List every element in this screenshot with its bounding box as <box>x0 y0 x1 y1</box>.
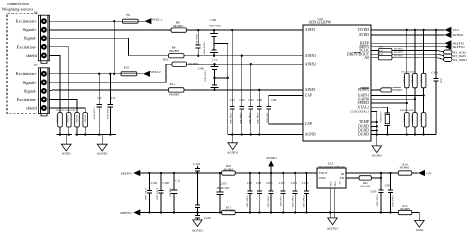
svg-text:TPS76950QDBVR1: TPS76950QDBVR1 <box>318 166 346 169</box>
wire XTAL1 TEMP DGND junction column <box>371 112 377 146</box>
node AINN2 x214 <box>213 63 215 65</box>
svg-text:Signal-: Signal- <box>24 36 38 41</box>
net tag RT_DAT1 <box>443 54 452 58</box>
node AINN1 x198 <box>197 55 199 57</box>
svg-text:AGND1: AGND1 <box>192 229 204 233</box>
capacitor C106 <box>147 173 152 213</box>
svg-text:C95: C95 <box>247 181 252 185</box>
svg-text:0R-0805: 0R-0805 <box>394 55 404 58</box>
capacitor C99b <box>257 173 262 213</box>
capacitor C97 lower <box>210 78 218 90</box>
svg-text:10k-0805: 10k-0805 <box>411 75 413 83</box>
svg-text:470pF-0603: 470pF-0603 <box>248 113 251 125</box>
svg-text:GND: GND <box>319 176 327 180</box>
resistor R14 <box>398 171 412 175</box>
svg-text:AGND1: AGND1 <box>327 227 339 231</box>
node rail R46 <box>422 133 424 135</box>
capacitor C100 <box>378 173 383 213</box>
svg-text:VCC: VCC <box>452 28 460 32</box>
node C4 junction <box>109 73 111 75</box>
svg-text:10uF/16V: 10uF/16V <box>169 188 172 198</box>
svg-text:NC: NC <box>338 182 340 186</box>
node C43 rail <box>250 133 252 135</box>
node SGND r2 <box>68 133 70 135</box>
svg-text:R44 R45 R46: R44 R45 R46 <box>400 109 415 112</box>
svg-text:VEXC2: VEXC2 <box>150 70 161 74</box>
node DVDD col2 <box>414 29 416 31</box>
node rail C3 <box>98 133 100 135</box>
capacitor C109 below line <box>195 213 200 220</box>
svg-text:470nF_0603: 470nF_0603 <box>156 188 159 201</box>
node C101 bottom <box>294 211 296 213</box>
svg-text:2.2uF-0603: 2.2uF-0603 <box>203 70 206 82</box>
resistor R31 <box>378 52 392 56</box>
svg-text:GND: GND <box>416 228 424 232</box>
svg-text:10k-0805: 10k-0805 <box>403 75 405 83</box>
svg-text:+5V: +5V <box>426 172 433 176</box>
resistor R45 pulldown <box>413 113 418 127</box>
wire Signal- sensor1 with jog <box>49 38 128 55</box>
ground DGND <box>372 146 381 153</box>
capacitor C101 <box>293 173 298 213</box>
connector P7 body <box>34 63 49 116</box>
node AINP1 x198 <box>197 29 199 31</box>
fuse F10 <box>121 72 137 76</box>
ground AGND1 left <box>97 135 107 151</box>
connector P6 pin 5 <box>41 52 47 58</box>
node rail R45 <box>414 133 416 135</box>
svg-text:C104: C104 <box>431 70 438 74</box>
svg-text:SREFN1: SREFN1 <box>120 211 132 215</box>
net flag +5V <box>418 170 425 176</box>
resistor R41 <box>359 176 371 180</box>
wire strap column3 <box>423 30 425 135</box>
node DGND b <box>376 129 378 131</box>
net flag VEXC1 <box>144 18 151 24</box>
resistor R17 <box>222 210 236 214</box>
node C99b bottom <box>258 211 260 213</box>
ground SGND <box>61 135 71 151</box>
svg-text:C46: C46 <box>257 98 263 102</box>
wire PDWN net <box>371 89 380 91</box>
node rail r5 <box>84 133 86 135</box>
svg-text:CAP: CAP <box>305 94 312 98</box>
capacitor C103 <box>304 173 309 213</box>
op-amp U10 ADS1232IPW box <box>303 25 371 141</box>
wire GAIN0 net <box>371 98 415 100</box>
svg-text:100nF-0603: 100nF-0603 <box>209 25 222 28</box>
capacitor C41 <box>230 30 235 134</box>
svg-text:2.2uF-0603: 2.2uF-0603 <box>106 108 109 120</box>
wire AVDD to AVDD1 <box>371 34 445 36</box>
node rail crystal <box>386 133 388 135</box>
capacitor C99 <box>388 173 393 213</box>
node AINN1 x214 <box>213 55 215 57</box>
svg-text:C98: C98 <box>198 66 204 70</box>
capacitor C100b on flag column <box>269 173 274 213</box>
wire SREFN1 line <box>140 212 399 214</box>
capacitor C11 <box>170 173 177 213</box>
svg-text:0R-0805: 0R-0805 <box>169 93 180 97</box>
svg-text:R33 R34 R35: R33 R34 R35 <box>402 70 417 73</box>
svg-text:C11: C11 <box>175 178 180 182</box>
node C100b top <box>270 172 272 174</box>
ground AGND1 C109 <box>193 220 202 227</box>
resistor R32 <box>378 56 392 60</box>
node C99b top <box>258 172 260 174</box>
svg-text:SREFP1: SREFP1 <box>121 171 133 175</box>
svg-text:GND: GND <box>329 182 331 187</box>
svg-text:AINP1: AINP1 <box>305 28 316 32</box>
node C99 rail <box>389 211 391 213</box>
svg-text:Excitation+: Excitation+ <box>16 19 38 24</box>
node U12 gnd line2 <box>329 211 331 213</box>
capacitor C80 between CAP pins <box>266 96 303 124</box>
svg-text:100nF-0603: 100nF-0603 <box>195 34 198 47</box>
svg-text:100nF-0603: 100nF-0603 <box>202 42 205 55</box>
svg-text:DGND: DGND <box>372 154 382 158</box>
net tag PWDN pentagon <box>379 88 391 92</box>
pin DRDY/DOUT with overline <box>347 52 370 56</box>
connector P7 pin 2 <box>41 79 47 85</box>
node C11 top <box>173 172 175 174</box>
svg-text:R12 R13 R18 R19: R12 R13 R18 R19 <box>57 109 76 112</box>
wire XTAL2 to crystal <box>371 107 388 113</box>
svg-text:C110: C110 <box>193 162 200 166</box>
wire SREFP1 line <box>140 172 317 174</box>
svg-text:AGND: AGND <box>305 133 316 137</box>
resistor R5 exc2 <box>83 113 88 127</box>
node C108 bottom <box>160 211 162 213</box>
svg-text:Excitation-: Excitation- <box>17 44 38 49</box>
resistor R11 <box>169 88 185 92</box>
svg-text:AVDD1: AVDD1 <box>452 33 463 37</box>
node C95 bottom <box>249 211 251 213</box>
node DVDD C104 <box>435 29 437 31</box>
node SGND r1 <box>59 133 61 135</box>
svg-text:100nF: 100nF <box>440 78 442 84</box>
capacitor C96 upper <box>210 30 218 43</box>
dashed sensor enclosure <box>7 14 37 114</box>
svg-text:GND: GND <box>333 182 335 187</box>
wire EN net <box>346 177 381 179</box>
svg-text:C80: C80 <box>271 98 277 102</box>
svg-text:R30: R30 <box>379 46 384 49</box>
svg-text:SGND: SGND <box>62 151 72 155</box>
svg-text:10k-0805: 10k-0805 <box>419 75 421 83</box>
wire R14 to flag <box>412 172 418 174</box>
svg-text:1M-0805: 1M-0805 <box>55 115 57 124</box>
capacitor C95 <box>248 173 253 213</box>
svg-text:F9: F9 <box>126 13 130 17</box>
svg-text:100nF-0603: 100nF-0603 <box>391 195 394 207</box>
svg-text:RT_XDR1: RT_XDR1 <box>453 58 467 62</box>
svg-text:470nF_0603: 470nF_0603 <box>246 196 249 209</box>
connector P7 pin 5 <box>41 105 47 111</box>
net flag VCC <box>444 27 451 33</box>
node C100 rail <box>380 211 382 213</box>
node C107 top <box>282 172 284 174</box>
net flag VEXC2 <box>143 71 150 77</box>
svg-text:TEMP: TEMP <box>359 120 369 124</box>
svg-text:DGND: DGND <box>358 133 369 137</box>
wire C97 midpoint tap <box>215 77 228 79</box>
svg-text:470nF_0603: 470nF_0603 <box>302 196 305 209</box>
capacitor C98 upper <box>210 64 218 78</box>
svg-text:2.2uF-0603: 2.2uF-0603 <box>279 196 282 208</box>
svg-text:C107: C107 <box>279 181 286 185</box>
svg-text:0R-0805: 0R-0805 <box>169 49 180 53</box>
node C112 bottom <box>196 211 198 213</box>
resistor R2 exc1 <box>67 113 72 127</box>
node IN C100 <box>380 172 382 174</box>
resistor R15 <box>398 210 412 214</box>
wire Excitation- sensor2 to R5 <box>49 99 77 112</box>
svg-text:C43: C43 <box>248 98 254 102</box>
resistor R16 <box>222 171 236 175</box>
svg-text:C42: C42 <box>239 98 245 102</box>
capacitor C105 <box>217 173 224 213</box>
node C103 top <box>305 172 307 174</box>
svg-text:470pF-0603: 470pF-0603 <box>239 113 242 125</box>
svg-text:C105: C105 <box>220 181 227 185</box>
capacitor C112 mid column <box>195 173 200 213</box>
svg-text:470pF-0603: 470pF-0603 <box>256 113 259 125</box>
resistor R9 <box>169 54 185 58</box>
node rail R44 <box>406 133 408 135</box>
wire AINP2 net <box>49 90 303 91</box>
svg-text:R11: R11 <box>170 82 176 86</box>
capacitor C108 <box>159 173 164 213</box>
node DGND a <box>376 125 378 127</box>
svg-text:470nF_0603: 470nF_0603 <box>144 188 147 201</box>
node TEMP <box>376 121 378 123</box>
svg-text:470nF_0603: 470nF_0603 <box>267 196 270 209</box>
capacitor C4 <box>108 74 114 135</box>
svg-text:C41: C41 <box>230 98 236 102</box>
node AINP1 x232 <box>231 29 233 31</box>
svg-text:0R-0805: 0R-0805 <box>188 62 199 66</box>
wire F9 to flag <box>138 20 144 22</box>
svg-text:C108: C108 <box>163 181 170 185</box>
label PWDN with overline <box>392 88 402 92</box>
net flag AVDD1 <box>444 32 451 38</box>
wire EXC1 to EXC2 vertical <box>113 21 115 74</box>
svg-text:2.2nF: 2.2nF <box>212 59 218 62</box>
wire REFN to SREFN1 <box>371 46 445 48</box>
svg-text:0R-0805: 0R-0805 <box>225 209 235 212</box>
svg-text:EN: EN <box>340 176 345 180</box>
wire U12 ground stubs <box>330 188 335 218</box>
pin PDWN with overline <box>358 88 369 92</box>
svg-text:A0: A0 <box>364 56 369 60</box>
node C46 rail <box>258 133 260 135</box>
svg-text:Signal+: Signal+ <box>23 80 38 85</box>
connector P6 pin 4 <box>41 44 47 50</box>
svg-text:connect to two: connect to two <box>7 1 29 6</box>
svg-text:10k-0805: 10k-0805 <box>403 114 405 122</box>
svg-text:0R-0805: 0R-0805 <box>173 24 184 28</box>
wire EXC+ sensor2 net <box>49 73 121 75</box>
ground GND <box>415 220 425 227</box>
wire strap column1 <box>406 30 408 135</box>
svg-text:C109: C109 <box>204 216 211 220</box>
node C42 rail <box>241 133 243 135</box>
node tap2 <box>213 77 215 79</box>
svg-text:0R-0805: 0R-0805 <box>400 208 410 211</box>
svg-text:C98: C98 <box>385 184 390 188</box>
svg-text:C3: C3 <box>98 96 102 100</box>
wire tap column to AGND rail <box>227 43 229 134</box>
svg-text:C106: C106 <box>151 181 158 185</box>
connector P6 body <box>34 11 49 64</box>
svg-text:AINN2: AINN2 <box>305 62 316 66</box>
resistor R8 <box>171 28 187 32</box>
svg-text:C96: C96 <box>211 18 217 22</box>
svg-text:10k+0603: 10k+0603 <box>360 185 371 188</box>
node C105 bottom <box>219 211 221 213</box>
svg-text:C98: C98 <box>256 181 261 185</box>
net flag SREFN1 <box>444 44 451 50</box>
node SPEED strap <box>406 102 408 104</box>
wire AINN1 net <box>128 55 303 57</box>
svg-text:shield: shield <box>26 53 38 58</box>
capacitor C43 <box>249 64 254 134</box>
svg-text:C103: C103 <box>302 181 309 185</box>
resistor R34 pullup <box>413 73 418 87</box>
svg-text:470nF_0603: 470nF_0603 <box>375 195 378 208</box>
resistor R46 pulldown <box>421 113 426 127</box>
capacitor C107 <box>281 173 286 213</box>
node C101 top <box>294 172 296 174</box>
wire A0 net <box>371 58 444 60</box>
node C103 bottom <box>305 211 307 213</box>
svg-text:SREFN1: SREFN1 <box>452 45 465 49</box>
svg-text:PDWN: PDWN <box>358 88 369 92</box>
wire REFP to SREFP1 <box>371 42 445 44</box>
node C95 top <box>249 172 251 174</box>
svg-text:1M-0805: 1M-0805 <box>75 115 77 124</box>
wire DVDD to VCC <box>371 29 445 31</box>
svg-text:470pF-0603: 470pF-0603 <box>229 113 232 125</box>
svg-text:Weighting sensors: Weighting sensors <box>2 7 34 12</box>
svg-text:C101: C101 <box>291 181 298 185</box>
net flag AVDD1 up <box>268 160 274 173</box>
svg-text:DVDD: DVDD <box>358 28 369 32</box>
svg-text:AVDD: AVDD <box>359 33 370 37</box>
svg-text:AINN1: AINN1 <box>305 54 316 58</box>
fuse F9 <box>122 19 138 23</box>
resistor R10 <box>172 62 187 66</box>
svg-text:470nF_0603: 470nF_0603 <box>291 196 294 209</box>
resistor R4 shield2 <box>75 113 80 127</box>
connector P6 pin 2 <box>41 27 47 33</box>
svg-text:P6: P6 <box>34 11 38 15</box>
wire SGND rail <box>57 127 73 135</box>
node DGND rail junction <box>376 133 378 135</box>
svg-text:1M-0805: 1M-0805 <box>66 115 68 124</box>
wire strap column2 <box>414 30 416 135</box>
wire EXC+ sensor1 net <box>49 20 122 22</box>
connector P6 pin 1 <box>41 18 47 24</box>
node C3 junction <box>98 73 100 75</box>
wire shield sensor2 to R4 <box>49 108 85 113</box>
ground AGND1 cap row <box>228 135 238 150</box>
svg-text:0R-0805: 0R-0805 <box>394 51 404 54</box>
node C100b bottom <box>270 211 272 213</box>
wire DGND rail <box>371 134 436 136</box>
svg-text:10k-0805: 10k-0805 <box>419 114 421 122</box>
resistor R33 pullup <box>405 73 410 87</box>
wire shield sensor1 to R1 <box>49 55 60 112</box>
connector P6 pin 3 <box>41 35 47 41</box>
svg-text:ADS1232IPW: ADS1232IPW <box>308 20 331 24</box>
wire AINP1 net <box>49 29 303 31</box>
svg-text:VOUT: VOUT <box>319 171 328 175</box>
svg-text:Excitation-: Excitation- <box>17 97 38 102</box>
wire GAIN1 net <box>371 94 424 96</box>
capacitor C110 above line <box>195 166 200 173</box>
svg-text:C100: C100 <box>266 181 273 185</box>
svg-text:PWDN: PWDN <box>392 88 402 92</box>
capacitor C104 <box>433 30 438 135</box>
node C41 rail <box>231 133 233 135</box>
svg-text:2.2uF-0603: 2.2uF-0603 <box>92 108 95 120</box>
node C11 bottom <box>173 211 175 213</box>
node C106 top <box>148 172 150 174</box>
net tag RT_XDR1 <box>443 58 452 62</box>
node C108 top <box>160 172 162 174</box>
capacitor C46 <box>257 90 262 135</box>
net flag SREFP1 bottom <box>133 170 140 176</box>
node tap column join <box>227 77 229 79</box>
wire R15 to GND <box>412 213 420 221</box>
node C107 bottom <box>282 211 284 213</box>
svg-text:0R-0805: 0R-0805 <box>224 168 234 171</box>
svg-text:VEXC1: VEXC1 <box>151 17 162 21</box>
svg-text:AVDD1: AVDD1 <box>266 156 277 160</box>
resistor R30 <box>378 48 392 52</box>
net flag SREFP1 <box>444 40 451 46</box>
svg-text:AGND1: AGND1 <box>227 150 239 154</box>
svg-text:R31: R31 <box>379 49 384 52</box>
wire AINN2 net <box>166 63 303 65</box>
regulator U12 box <box>317 168 346 188</box>
node rail r4 <box>76 133 78 135</box>
node GAIN0 strap <box>414 98 416 100</box>
svg-text:C100: C100 <box>370 190 377 194</box>
net flag SREFN1 bottom <box>133 209 140 215</box>
node AINN2 x250 <box>250 63 252 65</box>
node C105 top <box>219 172 221 174</box>
node EXC2 junction <box>113 73 115 75</box>
node EXC1 junction <box>113 20 115 22</box>
node GAIN1 strap <box>422 94 424 96</box>
wire IN net <box>346 172 399 174</box>
svg-text:R10: R10 <box>163 57 169 61</box>
node DVDD col3 <box>422 29 424 31</box>
capacitor C42 <box>240 56 245 135</box>
capacitor C3 <box>96 74 102 135</box>
svg-text:AINP2: AINP2 <box>305 88 316 92</box>
crystal X1 <box>385 113 391 135</box>
svg-text:C4: C4 <box>111 96 115 100</box>
svg-text:Excitation+: Excitation+ <box>16 71 38 76</box>
ground AGND1 U12 <box>328 218 338 225</box>
net tag RT_SCK1 <box>443 50 452 54</box>
wire Excitation- sensor1 to R2 <box>49 47 69 113</box>
resistor R1 shield1 <box>58 113 63 127</box>
